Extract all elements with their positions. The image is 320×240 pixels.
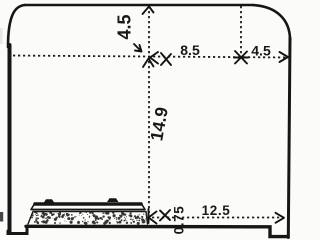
svg-text:4.5: 4.5 xyxy=(115,14,135,39)
svg-text:4.5: 4.5 xyxy=(251,43,271,59)
svg-text:8.5: 8.5 xyxy=(180,42,200,58)
svg-text:12.5: 12.5 xyxy=(202,203,231,218)
svg-text:0.75: 0.75 xyxy=(172,206,187,235)
